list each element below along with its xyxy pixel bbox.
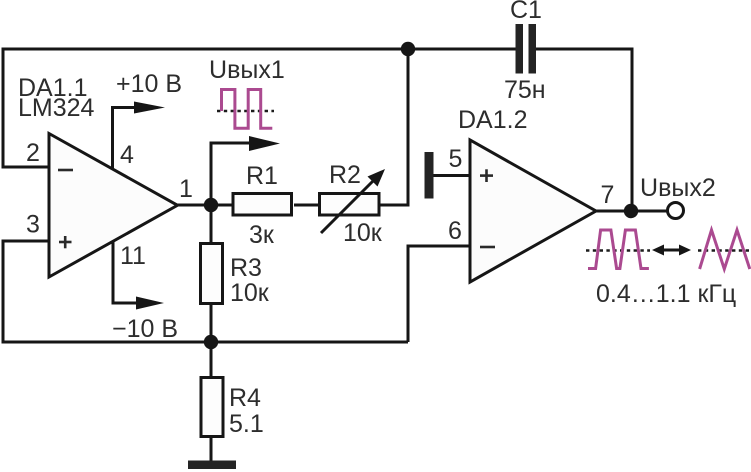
wire pin3 loop to bottom rail — [3, 241, 408, 342]
arrowhead Uvyh1 — [249, 136, 280, 151]
resistor R4 body — [201, 378, 223, 437]
svg-text:10к: 10к — [343, 219, 383, 247]
waveform Uvyh2 trapezoid — [586, 230, 650, 269]
ground symbol bottom — [188, 461, 236, 470]
resistor R2 variable arrow — [321, 169, 385, 233]
svg-text:+10 В: +10 В — [116, 70, 182, 98]
arrowhead -10V — [136, 297, 164, 310]
svg-text:DA1.2: DA1.2 — [458, 106, 527, 134]
svg-text:Uвых1: Uвых1 — [209, 56, 285, 84]
wire R3 bottom to bottom rail — [210, 304, 213, 342]
node junction at output Uvyh2 — [624, 204, 638, 218]
svg-text:Uвых2: Uвых2 — [640, 174, 716, 202]
svg-text:LM324: LM324 — [18, 94, 95, 122]
wire pin11 supply — [113, 241, 141, 303]
svg-text:2: 2 — [26, 139, 40, 167]
wire top feedback from pin2 loop to C1 left — [3, 49, 516, 167]
svg-text:R4: R4 — [229, 384, 261, 412]
wire Uvyh1 output arrow stem — [211, 143, 255, 205]
svg-text:5: 5 — [449, 145, 463, 173]
capacitor C1 plates — [516, 24, 537, 74]
op-amp2 minus sign — [480, 246, 495, 249]
svg-text:0.4…1.1 кГц: 0.4…1.1 кГц — [596, 280, 736, 308]
svg-text:1: 1 — [179, 175, 193, 203]
wire pin4 supply — [113, 108, 141, 170]
svg-text:4: 4 — [120, 141, 134, 169]
svg-text:7: 7 — [601, 181, 615, 209]
svg-text:−10 В: −10 В — [112, 315, 178, 343]
double arrow between waveforms — [652, 245, 691, 256]
svg-text:R2: R2 — [329, 161, 361, 189]
waveform Uvyh2 triangle — [698, 230, 751, 269]
svg-text:3к: 3к — [249, 221, 275, 249]
wire R2 right up to top node — [380, 49, 408, 205]
op-amp U1 DA1.1 triangle — [49, 134, 178, 278]
svg-text:R3: R3 — [230, 254, 262, 282]
resistor R3 body — [201, 244, 223, 304]
wire R4 bottom to ground — [210, 438, 213, 463]
output terminal circle — [668, 203, 684, 219]
wire node1 vertical R3 branch — [210, 143, 213, 242]
resistor R2 body — [320, 194, 380, 216]
wire bottom rail to R4 top — [210, 342, 213, 376]
svg-text:3: 3 — [26, 211, 40, 239]
wire op-amp1 output to R1 — [177, 204, 232, 207]
svg-text:6: 6 — [448, 217, 462, 245]
svg-text:R1: R1 — [246, 162, 278, 190]
wire R1 to R2 — [294, 204, 318, 207]
node junction bottom rail — [204, 335, 218, 349]
svg-text:10к: 10к — [230, 279, 270, 307]
op-amp2 plus sign — [480, 169, 493, 182]
op-amp1 minus sign — [58, 169, 73, 172]
arrowhead +10V — [134, 102, 165, 114]
node junction top at C1 left — [401, 42, 415, 56]
ground symbol at pin 5 — [425, 152, 434, 199]
op-amp U2 DA1.2 triangle — [470, 140, 596, 282]
resistor R1 body — [233, 194, 292, 216]
svg-text:11: 11 — [120, 242, 146, 270]
wire C1 right to output node — [536, 49, 632, 211]
wire op-amp2 output to terminal — [596, 210, 668, 213]
wire pin5 to ground bar — [433, 174, 470, 177]
svg-text:5.1: 5.1 — [229, 410, 264, 438]
wire pin6 to bottom rail — [408, 246, 470, 342]
waveform Uvyh1 square wave — [217, 90, 274, 129]
node junction at op-amp1 output — [204, 198, 218, 212]
svg-text:C1: C1 — [510, 0, 542, 24]
svg-text:75н: 75н — [504, 76, 546, 104]
op-amp1 plus sign — [59, 236, 72, 248]
